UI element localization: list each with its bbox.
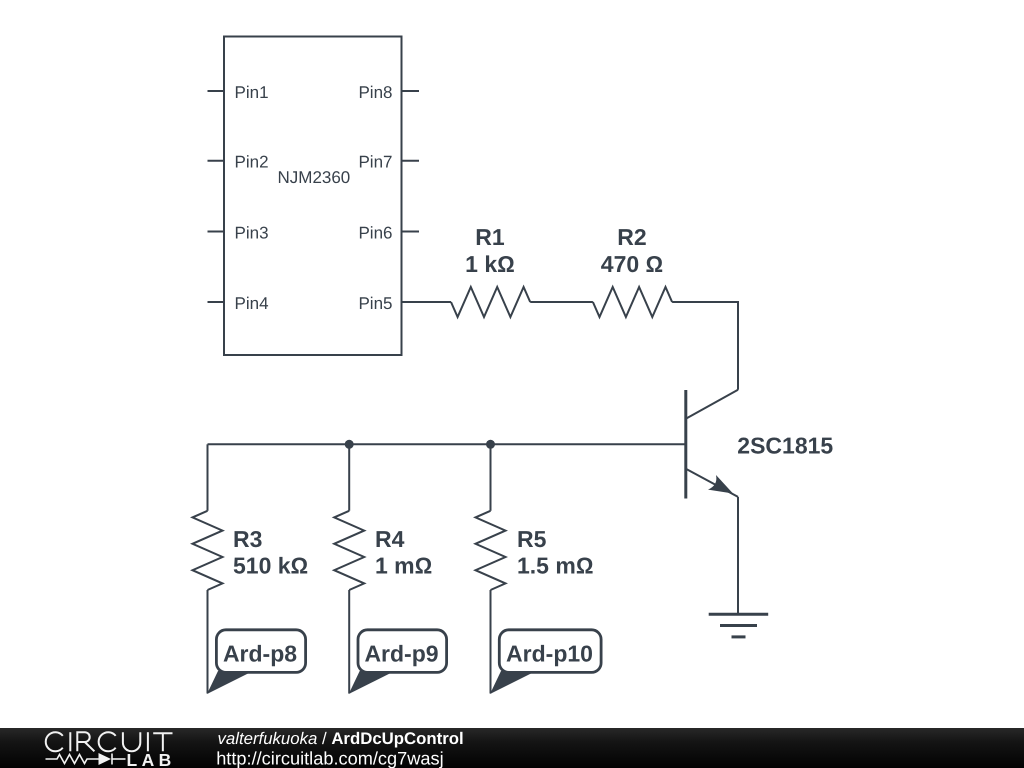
svg-text:1.5 mΩ: 1.5 mΩ [517, 552, 593, 578]
resistor R2 [593, 287, 672, 317]
svg-text:Pin3: Pin3 [235, 223, 269, 242]
svg-text:Ard-p10: Ard-p10 [506, 641, 593, 667]
svg-text:1 mΩ: 1 mΩ [375, 552, 432, 578]
footer bar [0, 728, 1024, 768]
transistor Q1 base bar [684, 390, 687, 499]
svg-text:http://circuitlab.com/cg7wasj: http://circuitlab.com/cg7wasj [216, 748, 443, 768]
svg-text:R4: R4 [375, 526, 405, 552]
svg-text:Pin6: Pin6 [358, 223, 392, 242]
flag Ard-p10 tail [490, 671, 536, 694]
wire R1 to R2 [530, 301, 593, 303]
svg-text:NJM2360: NJM2360 [278, 168, 351, 187]
svg-text:Pin4: Pin4 [235, 294, 269, 313]
flag Ard-p10 box [499, 630, 601, 673]
pin 3 stub [208, 231, 225, 233]
svg-text:R1: R1 [475, 224, 505, 250]
ground [709, 614, 769, 637]
wire bus to R5 [490, 444, 492, 511]
pin 8 stub [402, 90, 420, 92]
svg-text:Pin1: Pin1 [235, 83, 269, 102]
resistor R3 [193, 511, 223, 590]
svg-text:510 kΩ: 510 kΩ [233, 552, 308, 578]
flag Ard-p9 tail [349, 671, 395, 694]
wire R5 to flag [490, 590, 492, 694]
op-amp U1 NJM2360 box [224, 37, 402, 356]
svg-text:470 Ω: 470 Ω [601, 251, 663, 277]
wire R4 to flag [348, 590, 350, 694]
svg-text:Pin5: Pin5 [358, 294, 392, 313]
junction dot at R5 [486, 440, 495, 449]
flag Ard-p8 box [216, 630, 305, 673]
junction dot at R4 [345, 440, 354, 449]
resistor R4 [334, 511, 364, 590]
wire base bus [208, 443, 686, 445]
svg-text:Pin2: Pin2 [235, 153, 269, 172]
svg-text:1 kΩ: 1 kΩ [465, 251, 515, 277]
transistor Q1 emitter diagonal [686, 469, 738, 497]
transistor Q1 emitter arrow [708, 475, 733, 494]
logo resistor-diode wire [46, 754, 126, 765]
wire pin5 to R1 [402, 301, 452, 303]
pin 1 stub [208, 90, 225, 92]
svg-text:R2: R2 [617, 224, 646, 250]
logo CIRCUIT letters [46, 732, 173, 751]
logo diode triangle [99, 753, 112, 765]
svg-text:valterfukuoka / ArdDcUpControl: valterfukuoka / ArdDcUpControl [218, 729, 464, 748]
svg-text:Pin7: Pin7 [358, 153, 392, 172]
pin 2 stub [208, 160, 225, 162]
resistor R5 [476, 511, 506, 590]
svg-text:R3: R3 [233, 526, 262, 552]
wire R3 to flag [207, 590, 209, 694]
wire bus to R4 [348, 444, 350, 511]
resistor R1 [451, 287, 530, 317]
svg-text:LAB: LAB [127, 750, 176, 768]
flag Ard-p9 box [358, 630, 447, 673]
flag Ard-p8 tail [207, 671, 253, 694]
wire R2 to collector [672, 302, 738, 390]
pin 7 stub [402, 160, 420, 162]
svg-text:Pin8: Pin8 [358, 83, 392, 102]
transistor Q1 collector diagonal [686, 390, 738, 419]
pin 6 stub [402, 231, 420, 233]
svg-text:R5: R5 [517, 526, 547, 552]
svg-text:Ard-p8: Ard-p8 [223, 641, 297, 667]
wire emitter down [737, 497, 739, 615]
svg-text:Ard-p9: Ard-p9 [364, 641, 438, 667]
svg-text:2SC1815: 2SC1815 [737, 432, 833, 458]
pin 4 stub [208, 301, 225, 303]
wire bus to R3 [207, 444, 209, 511]
